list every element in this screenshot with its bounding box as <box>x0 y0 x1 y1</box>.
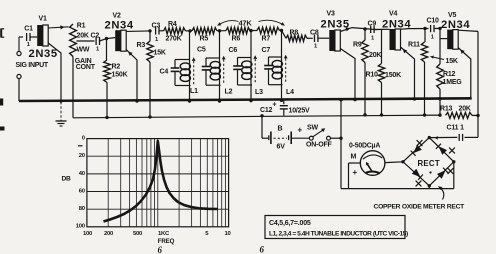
svg-text:V2: V2 <box>113 13 121 20</box>
svg-text:100: 100 <box>83 231 93 237</box>
svg-text:R4: R4 <box>168 21 177 28</box>
svg-text:C11 1: C11 1 <box>447 125 465 132</box>
svg-text:C1: C1 <box>24 26 33 33</box>
svg-text:15K: 15K <box>446 58 458 65</box>
svg-text:C7: C7 <box>262 47 271 54</box>
svg-text:5: 5 <box>205 231 209 237</box>
svg-text:1KC: 1KC <box>158 231 170 237</box>
svg-text:20K: 20K <box>459 106 471 113</box>
svg-text:+: + <box>353 168 358 177</box>
svg-text:40: 40 <box>79 171 86 177</box>
svg-text:C6: C6 <box>229 47 238 54</box>
svg-text:1: 1 <box>431 35 435 41</box>
svg-text:R1: R1 <box>77 22 86 29</box>
svg-text:1: 1 <box>371 36 375 42</box>
svg-text:L1, 2,3,4 = 5.4H TUNABLE INDU: L1, 2,3,4 = 5.4H TUNABLE INDUCTOR (UTC V… <box>269 230 408 237</box>
svg-text:10/25V: 10/25V <box>289 108 311 115</box>
svg-text:C10: C10 <box>427 18 440 25</box>
svg-text:1MEG: 1MEG <box>443 79 463 86</box>
svg-text:SW: SW <box>307 125 318 132</box>
svg-text:10: 10 <box>225 231 232 237</box>
svg-text:20: 20 <box>79 153 86 159</box>
svg-text:C5: C5 <box>197 47 206 54</box>
svg-text:+: + <box>273 102 277 109</box>
svg-text:C3: C3 <box>152 23 161 30</box>
svg-text:0-50DCµA: 0-50DCµA <box>349 143 380 150</box>
svg-text:C4,5,6,7=.005: C4,5,6,7=.005 <box>269 220 311 227</box>
svg-text:R9: R9 <box>353 42 362 49</box>
svg-text:R6: R6 <box>232 36 241 43</box>
svg-text:SIG INPUT: SIG INPUT <box>16 62 49 69</box>
svg-text:RECT: RECT <box>418 159 440 168</box>
svg-text:6V: 6V <box>277 144 286 151</box>
svg-text:R3: R3 <box>137 42 146 49</box>
svg-text:2N35: 2N35 <box>29 48 58 60</box>
svg-text:80: 80 <box>79 206 86 212</box>
svg-text:FREQ: FREQ <box>158 238 175 245</box>
svg-text:6: 6 <box>260 245 265 254</box>
svg-text:2N34: 2N34 <box>105 20 134 32</box>
svg-text:L4: L4 <box>286 89 294 96</box>
svg-text:V3: V3 <box>327 11 335 18</box>
svg-text:15K: 15K <box>154 50 166 57</box>
svg-text:R12: R12 <box>443 71 456 78</box>
svg-text:47K: 47K <box>239 19 253 28</box>
svg-text:R7: R7 <box>262 36 271 43</box>
svg-text:L1: L1 <box>190 88 198 95</box>
svg-text:270K: 270K <box>166 36 182 43</box>
svg-text:V5: V5 <box>448 12 456 19</box>
svg-text:0: 0 <box>82 136 86 142</box>
svg-text:WW: WW <box>77 47 90 54</box>
svg-text:1: 1 <box>96 47 100 53</box>
svg-text:C4: C4 <box>160 69 169 76</box>
svg-text:L3: L3 <box>255 89 263 96</box>
svg-text:CONT: CONT <box>76 64 96 71</box>
svg-text:2N34: 2N34 <box>441 19 470 31</box>
svg-text:ON-OFF: ON-OFF <box>306 142 333 149</box>
svg-text:C9: C9 <box>368 21 377 28</box>
svg-text:+: + <box>298 125 303 134</box>
svg-text:20K: 20K <box>77 32 89 39</box>
svg-text:V1: V1 <box>39 16 47 23</box>
svg-text:C2: C2 <box>91 33 100 40</box>
svg-text:M: M <box>351 154 357 161</box>
svg-text:R2: R2 <box>112 64 121 71</box>
svg-text:B: B <box>278 126 283 133</box>
svg-text:R5: R5 <box>200 36 209 43</box>
svg-text:20K: 20K <box>369 52 381 59</box>
svg-text:2N35: 2N35 <box>321 19 350 31</box>
svg-text:R13: R13 <box>440 106 453 113</box>
svg-text:R8: R8 <box>290 30 299 37</box>
svg-text:V4: V4 <box>389 11 397 18</box>
svg-text:C8: C8 <box>310 30 319 37</box>
svg-text:200: 200 <box>104 231 114 237</box>
svg-text:DB: DB <box>62 176 72 183</box>
svg-text:500: 500 <box>133 231 143 237</box>
svg-text:C12: C12 <box>260 107 273 114</box>
svg-text:150K: 150K <box>112 72 128 79</box>
svg-text:COPPER OXIDE METER RECT: COPPER OXIDE METER RECT <box>374 204 466 211</box>
svg-text:1: 1 <box>314 44 318 50</box>
svg-text:R10: R10 <box>366 72 379 79</box>
svg-text:1: 1 <box>155 37 159 43</box>
svg-text:L2: L2 <box>225 89 233 96</box>
svg-text:R11: R11 <box>408 42 420 49</box>
svg-text:6: 6 <box>158 245 163 254</box>
svg-text:60: 60 <box>79 188 86 194</box>
svg-text:150K: 150K <box>385 72 401 79</box>
svg-text:100: 100 <box>76 224 86 230</box>
